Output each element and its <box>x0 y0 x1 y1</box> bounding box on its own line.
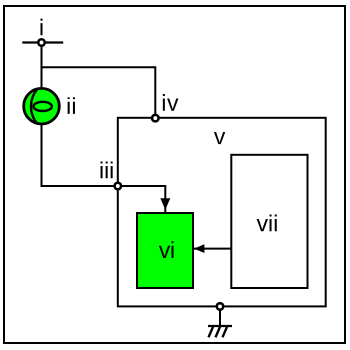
wire branch to node iv <box>42 67 156 118</box>
node iii <box>115 183 122 190</box>
rectangle v <box>118 118 326 307</box>
label v <box>214 132 225 144</box>
label iii <box>101 162 113 179</box>
rectangle vi (green) <box>137 213 193 288</box>
bottom node on rectangle v <box>217 303 224 310</box>
label vii <box>257 215 277 232</box>
label ii <box>68 97 75 114</box>
arrow from vii into vi <box>193 248 231 250</box>
source ii inner arc <box>31 90 37 124</box>
source ii circle <box>24 88 60 124</box>
node iv <box>152 115 159 122</box>
ground hatch 2 <box>216 327 221 338</box>
ground wire <box>219 310 221 326</box>
wire node i down to source ii <box>41 43 43 89</box>
source ii inner ellipse <box>34 102 52 111</box>
node i <box>38 39 45 46</box>
wire source ii down and right to node iii <box>42 124 118 186</box>
label iv <box>163 94 179 111</box>
arrow from node iii into vi <box>122 186 166 213</box>
rectangle vii <box>231 155 307 288</box>
ground hatch 3 <box>223 327 228 338</box>
ground hatch 1 <box>209 327 214 338</box>
terminal crossbar at node i <box>22 41 63 43</box>
label i <box>40 19 42 36</box>
ground bar <box>208 325 232 327</box>
label vi <box>159 241 174 258</box>
